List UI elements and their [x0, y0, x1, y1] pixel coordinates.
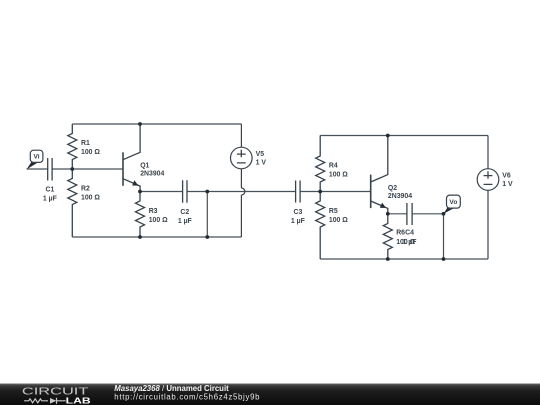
svg-text:1 V: 1 V: [256, 160, 267, 167]
wire C3 to R4 R5 node: [300, 191, 320, 193]
svg-text:V5: V5: [256, 151, 265, 158]
resistor R4: [316, 136, 325, 192]
capacitor C4: [407, 203, 412, 225]
wire top rail left stage: [72, 123, 241, 125]
transistor Q2: [371, 136, 388, 214]
svg-text:http://circuitlab.com/c5h6z4z5: http://circuitlab.com/c5h6z4z5bjy9b: [114, 393, 260, 402]
capacitor C1: [48, 158, 52, 181]
wire bottom rail left stage: [72, 236, 241, 238]
wire hop over signal wire: [241, 188, 245, 195]
wire C1 to Q1 base: [52, 168, 123, 170]
svg-text:LAB: LAB: [66, 396, 91, 405]
svg-text:100 Ω: 100 Ω: [149, 217, 168, 224]
svg-text:Masaya2368 / Unnamed Circuit: Masaya2368 / Unnamed Circuit: [114, 384, 229, 393]
capacitor C2: [183, 180, 187, 203]
svg-text:C3: C3: [293, 209, 302, 216]
wire emitter node to C2: [140, 191, 183, 193]
svg-text:C4: C4: [405, 230, 414, 237]
wire C2 to node: [187, 191, 207, 193]
resistor R1: [68, 124, 77, 169]
svg-text:V6: V6: [502, 173, 511, 180]
svg-text:2N3904: 2N3904: [140, 171, 164, 178]
svg-text:1 µF: 1 µF: [403, 239, 417, 246]
transistor Q1: [123, 124, 140, 192]
svg-text:1 µF: 1 µF: [43, 196, 57, 203]
node Vi flag: [27, 150, 43, 169]
svg-text:C1: C1: [45, 186, 54, 193]
svg-text:100 Ω: 100 Ω: [81, 195, 100, 202]
svg-text:Q2: Q2: [388, 185, 397, 192]
svg-text:100 Ω: 100 Ω: [81, 149, 100, 156]
wire C4 to Vo node: [412, 213, 443, 215]
resistor R3: [136, 192, 145, 238]
svg-text:100 Ω: 100 Ω: [329, 172, 348, 179]
svg-text:R6: R6: [396, 230, 405, 237]
wire signal node to C3: [207, 191, 295, 193]
junction dots: [70, 122, 445, 261]
svg-text:1 µF: 1 µF: [291, 218, 305, 225]
wire node down to bottom rail: [206, 192, 208, 238]
CircuitLab logo: [22, 386, 91, 405]
voltage source V6: [477, 136, 499, 260]
svg-text:R4: R4: [329, 162, 338, 169]
wire node to Q2 base: [320, 191, 371, 193]
svg-text:R1: R1: [81, 140, 90, 147]
svg-text:R5: R5: [329, 208, 338, 215]
svg-text:100 Ω: 100 Ω: [329, 217, 348, 224]
svg-text:Vo: Vo: [449, 199, 457, 206]
node Vo flag: [444, 195, 461, 214]
svg-text:R2: R2: [81, 185, 90, 192]
svg-text:R3: R3: [149, 208, 158, 215]
svg-text:Q1: Q1: [140, 163, 149, 170]
svg-text:2N3904: 2N3904: [388, 193, 412, 200]
capacitor C3: [296, 181, 301, 203]
wire bottom rail right stage: [320, 258, 488, 260]
wire top rail right stage: [320, 135, 488, 137]
wire Vo node down to bottom rail: [443, 214, 445, 259]
resistor R2: [68, 169, 77, 237]
resistor R6: [383, 214, 392, 259]
footer bar: [0, 384, 540, 405]
voltage source V5: [231, 124, 253, 237]
resistor R5: [316, 192, 325, 260]
svg-text:1 V: 1 V: [502, 181, 513, 188]
wire input Vi to C1: [27, 168, 48, 170]
svg-text:C2: C2: [180, 209, 189, 216]
svg-text:1 µF: 1 µF: [178, 218, 192, 225]
svg-text:Vi: Vi: [34, 154, 40, 161]
wire emitter node to C4: [388, 213, 407, 215]
